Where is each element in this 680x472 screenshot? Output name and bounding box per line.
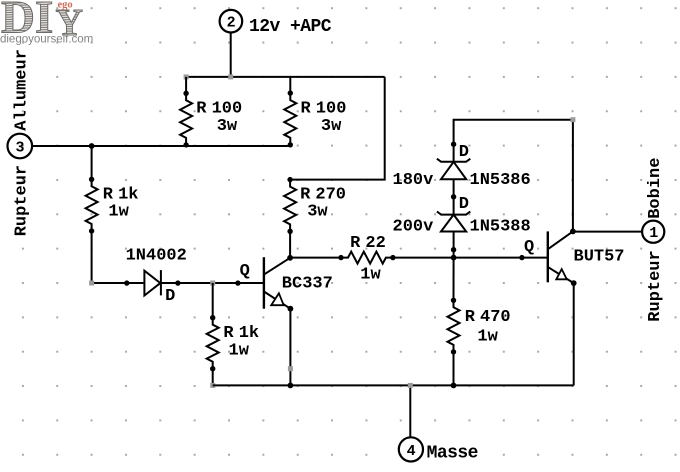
node 3 circle — [7, 134, 32, 159]
resistor R100 right — [284, 77, 346, 148]
svg-text:R1k: R1k — [103, 185, 139, 204]
svg-text:Masse: Masse — [427, 443, 478, 463]
wire bottom rail to node 4 — [409, 385, 411, 437]
resistor R100 left — [180, 77, 242, 148]
wire zener column to R470 — [453, 250, 455, 301]
svg-text:D: D — [459, 143, 469, 162]
wire bottom rail — [213, 384, 574, 386]
junction grip node4 wire — [408, 383, 413, 388]
wire R1k2 stem top — [212, 283, 214, 318]
pin dot BC337 base — [235, 280, 240, 285]
wire BUT57 emitter drop — [573, 283, 575, 385]
diode 1N4002 — [124, 247, 187, 307]
svg-text:Rupteur: Rupteur — [13, 165, 32, 236]
junction grip base wire x R1k2 column — [210, 281, 215, 286]
wire from node 2 to top rail — [230, 33, 232, 77]
wire collector row to R22 — [290, 257, 341, 259]
svg-text:1w: 1w — [108, 203, 129, 222]
node 1 circle — [642, 221, 664, 243]
svg-text:ego: ego — [58, 0, 73, 10]
junction dot emitter x bottom rail — [288, 383, 294, 389]
svg-text:12v +APC: 12v +APC — [249, 17, 332, 37]
node 4 circle Masse — [399, 437, 478, 463]
svg-text:Q: Q — [524, 238, 534, 257]
pin dot diode right — [175, 280, 180, 285]
logo DIY diegoyourself.com — [0, 0, 93, 46]
svg-text:BC337: BC337 — [282, 274, 333, 293]
corner grip bottom left — [210, 383, 215, 388]
svg-text:1N5386: 1N5386 — [470, 171, 531, 190]
svg-text:D: D — [165, 287, 175, 306]
wire right drop from top rail — [290, 77, 385, 180]
svg-text:R100: R100 — [301, 99, 347, 118]
label Rupteur Allumeur vertical — [13, 49, 32, 236]
svg-text:180v: 180v — [393, 171, 434, 190]
junction dot rail3 x R1k column — [89, 143, 95, 149]
transistor Q BUT57 — [524, 229, 625, 287]
wire R1k column upper — [91, 146, 93, 179]
resistor R1k upper-left — [86, 177, 139, 234]
svg-text:1w: 1w — [477, 327, 498, 346]
wire R22 to BUT57 base — [393, 257, 548, 259]
junction grip top rail left end — [184, 74, 189, 79]
svg-text:Rupteur: Rupteur — [646, 250, 665, 321]
svg-text:3: 3 — [16, 139, 25, 156]
corner grip zener link right — [570, 117, 575, 122]
svg-text:1w: 1w — [360, 265, 381, 284]
svg-text:R22: R22 — [350, 234, 386, 253]
wire zener top link — [454, 120, 573, 232]
node 2 circle 12v +APC — [220, 10, 332, 37]
zener diode D1 1N5386 — [393, 142, 531, 197]
wire BC337 emitter to bottom rail — [289, 309, 291, 386]
junction grip top rail / node2 wire — [228, 74, 233, 79]
wire top rail — [186, 76, 385, 78]
svg-text:BUT57: BUT57 — [574, 247, 625, 266]
svg-text:1: 1 — [649, 225, 658, 242]
junction dot zener column x base wire — [451, 255, 457, 261]
svg-text:R100: R100 — [196, 99, 242, 118]
corner grip — [89, 281, 94, 286]
label Rupteur Bobine vertical — [646, 158, 665, 322]
svg-text:3w: 3w — [307, 203, 328, 222]
resistor R470 — [448, 298, 511, 355]
svg-text:diegoyourself.com: diegoyourself.com — [0, 33, 93, 46]
svg-text:3w: 3w — [321, 117, 342, 136]
svg-text:1N5388: 1N5388 — [470, 217, 531, 236]
wire BUT57 collector to node 1 — [573, 231, 642, 233]
resistor R1k lower — [207, 315, 259, 371]
svg-text:D: D — [459, 195, 469, 214]
svg-text:Bobine: Bobine — [646, 158, 665, 219]
wire from R1k down and right to diode — [92, 231, 144, 283]
transistor Q BC337 — [240, 255, 333, 312]
svg-text:Allumeur: Allumeur — [13, 49, 32, 131]
junction dot R470 bottom rail — [451, 383, 457, 389]
svg-text:Q: Q — [240, 262, 250, 281]
zener diode D2 1N5388 — [393, 194, 531, 252]
wire rail from node 3 — [32, 145, 290, 147]
svg-text:R270: R270 — [300, 185, 346, 204]
svg-text:3w: 3w — [217, 117, 238, 136]
pin dot BUT57 base — [519, 255, 524, 260]
wire R1k2 to bottom rail — [212, 369, 214, 386]
svg-text:200v: 200v — [393, 217, 434, 236]
svg-text:1w: 1w — [229, 342, 250, 361]
resistor R 22 — [338, 234, 395, 285]
svg-text:2: 2 — [227, 15, 236, 32]
svg-text:R1k: R1k — [223, 324, 259, 343]
svg-text:R470: R470 — [465, 308, 511, 327]
svg-text:1N4002: 1N4002 — [126, 247, 187, 266]
svg-text:4: 4 — [407, 443, 416, 460]
wire diode to BC337 base — [161, 282, 264, 284]
grip on emitter wire — [288, 366, 293, 371]
wire R470 to bottom rail — [453, 352, 455, 386]
wire R270 to collector — [289, 231, 291, 257]
resistor R270 — [284, 177, 346, 234]
